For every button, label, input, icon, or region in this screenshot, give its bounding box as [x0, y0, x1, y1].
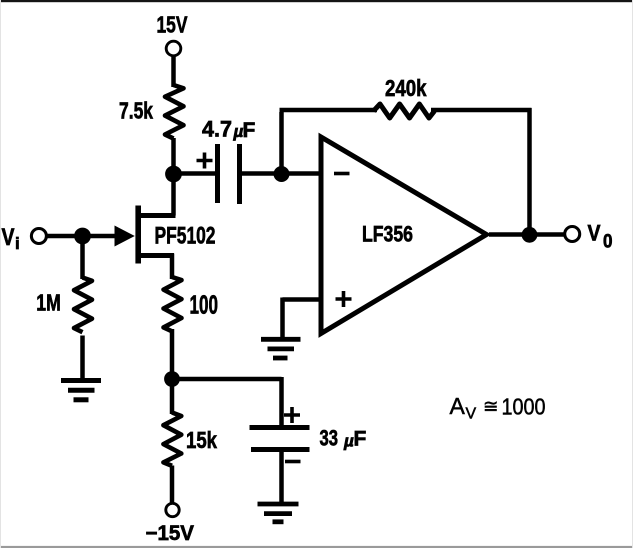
node B junction dot — [274, 166, 290, 182]
wire capacitor C1 to node B — [241, 171, 282, 176]
svg-text:i: i — [15, 234, 20, 253]
bottom border line — [0, 546, 633, 548]
ground (below C2 33uF) — [258, 504, 299, 522]
capacitor C1 4.7uF left plate — [215, 144, 220, 203]
svg-text:−15V: −15V — [146, 522, 195, 545]
node output junction dot — [522, 227, 538, 243]
wire node B up to feedback — [279, 112, 284, 176]
resistor R1 7.5k zigzag — [165, 85, 184, 139]
svg-text:240k: 240k — [385, 75, 427, 101]
top border line — [0, 0, 633, 2]
wire Vi node down to R 1M — [80, 236, 85, 279]
wire 15V terminal to R 7.5k — [171, 56, 176, 88]
svg-text:V: V — [588, 221, 601, 246]
svg-text:µ: µ — [343, 432, 354, 451]
wire noninverting input down to ground — [280, 298, 285, 339]
svg-text:PF5102: PF5102 — [155, 223, 216, 250]
wire Vi terminal to JFET gate arrow — [47, 234, 119, 239]
wire R 15k to -15V terminal — [170, 466, 175, 504]
capacitor C2 minus sign — [285, 460, 301, 464]
svg-text:7.5k: 7.5k — [119, 98, 153, 124]
op-amp minus input sign — [334, 172, 350, 176]
svg-text:15V: 15V — [157, 12, 188, 38]
left border line — [0, 0, 1, 548]
wire node A to capacitor C1 — [171, 171, 216, 176]
wire JFET source down to R 100 — [170, 254, 175, 280]
wire feedback top right segment — [431, 108, 532, 113]
svg-text:LF356: LF356 — [362, 222, 413, 247]
wire R 7.5k to node A / JFET drain — [171, 138, 176, 216]
node Vi junction dot — [74, 228, 91, 245]
ground (op-amp + input) — [261, 339, 301, 358]
wire R 1M to ground — [80, 336, 85, 379]
terminal Vi circle — [31, 229, 46, 244]
svg-text:15k: 15k — [186, 427, 218, 453]
node A junction dot — [165, 166, 182, 183]
right border line — [632, 0, 633, 548]
svg-text:1000: 1000 — [502, 394, 546, 420]
svg-text:V: V — [2, 224, 15, 251]
resistor R5 15k zigzag — [163, 413, 181, 466]
op-amp U1 LF356 triangle — [321, 137, 487, 334]
svg-text:F: F — [354, 428, 367, 451]
svg-text:4.7: 4.7 — [202, 117, 232, 142]
wire feedback top left segment — [280, 108, 378, 113]
transistor Q1 drain lead — [137, 213, 176, 218]
svg-text:0: 0 — [603, 231, 613, 253]
wire feedback down to output node — [527, 108, 532, 235]
transistor Q1 PF5102 gate bar — [135, 206, 141, 264]
resistor R4 100 zigzag — [164, 277, 182, 331]
capacitor C2 plus sign — [284, 407, 300, 423]
node C junction dot — [164, 371, 180, 387]
resistor R2 240k zigzag — [374, 104, 435, 118]
wire R 100 to node C — [170, 329, 175, 414]
terminal -15V circle — [166, 503, 179, 516]
wire op-amp noninverting input — [283, 297, 320, 302]
svg-text:1M: 1M — [36, 290, 61, 316]
terminal 15V circle — [166, 41, 181, 56]
svg-text:≅: ≅ — [483, 396, 499, 417]
wire down to capacitor C2 plus plate — [279, 377, 284, 425]
ground (below R 1M) — [61, 381, 101, 400]
svg-text:V: V — [466, 406, 477, 423]
terminal V0 circle — [565, 227, 580, 242]
svg-text:100: 100 — [190, 292, 219, 320]
op-amp plus input sign — [336, 291, 352, 307]
wire capacitor C2 to ground — [279, 452, 284, 502]
transistor Q1 source lead — [137, 253, 174, 258]
svg-text:F: F — [243, 119, 256, 142]
transistor Q1 gate arrow — [115, 226, 135, 247]
wire node B to op-amp inverting input — [282, 171, 320, 176]
svg-text:A: A — [450, 393, 466, 419]
capacitor C2 33uF bottom plate — [251, 447, 310, 452]
svg-text:33: 33 — [320, 426, 339, 451]
wire node C to capacitor C2 — [170, 377, 282, 382]
capacitor C2 33uF top plate — [250, 425, 310, 430]
wire op-amp output to V0 terminal — [489, 232, 564, 237]
capacitor C1 plus sign — [197, 153, 213, 169]
capacitor C1 4.7uF right plate — [237, 144, 242, 204]
resistor R3 1M zigzag — [74, 278, 92, 333]
